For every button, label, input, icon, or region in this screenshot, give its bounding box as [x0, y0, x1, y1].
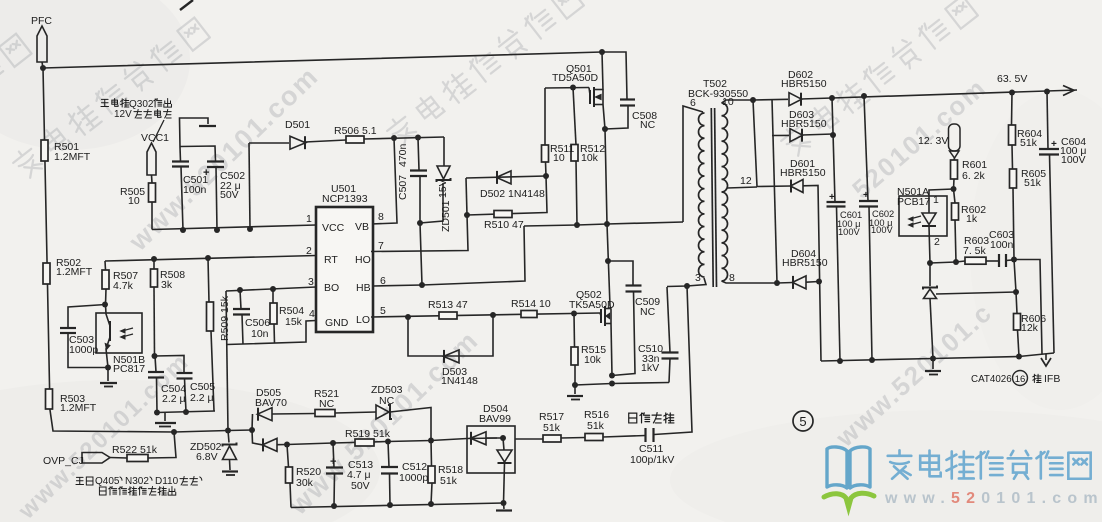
- svg-text:D501: D501: [285, 119, 310, 131]
- svg-text:2.2 μ: 2.2 μ: [190, 392, 214, 404]
- svg-text:51k: 51k: [587, 420, 605, 432]
- svg-text:+: +: [829, 192, 835, 203]
- svg-text:NC: NC: [379, 395, 395, 407]
- svg-text:1N4148: 1N4148: [441, 375, 478, 387]
- svg-text:IFB: IFB: [1044, 373, 1060, 385]
- svg-text:N302: N302: [125, 476, 149, 487]
- svg-text:2: 2: [934, 236, 940, 248]
- svg-text:R509 15k: R509 15k: [219, 295, 231, 341]
- svg-text:GND: GND: [325, 317, 349, 329]
- svg-text:6. 2k: 6. 2k: [962, 170, 986, 182]
- svg-text:10k: 10k: [581, 152, 599, 164]
- svg-text:HBR5150: HBR5150: [781, 78, 827, 90]
- svg-text:470n: 470n: [397, 143, 409, 167]
- svg-text:12: 12: [740, 175, 752, 187]
- svg-text:TK5A50D: TK5A50D: [569, 299, 615, 311]
- svg-text:7. 5k: 7. 5k: [963, 245, 987, 257]
- svg-text:16: 16: [1015, 374, 1026, 385]
- svg-text:VCC: VCC: [322, 222, 345, 234]
- svg-text:100n: 100n: [990, 239, 1014, 251]
- svg-text:OVP_CJ: OVP_CJ: [43, 455, 84, 467]
- svg-text:50V: 50V: [220, 189, 239, 201]
- svg-text:30k: 30k: [296, 477, 314, 489]
- svg-text:HBR5150: HBR5150: [782, 257, 828, 269]
- svg-text:10k: 10k: [584, 354, 602, 366]
- svg-text:15k: 15k: [285, 316, 303, 328]
- svg-text:R513 47: R513 47: [428, 299, 468, 311]
- svg-text:VCC1: VCC1: [141, 132, 169, 144]
- svg-text:VB: VB: [355, 221, 369, 233]
- svg-text:R506 5.1: R506 5.1: [334, 125, 377, 137]
- svg-text:3: 3: [308, 276, 314, 288]
- svg-text:PFC: PFC: [31, 15, 52, 27]
- svg-text:D110: D110: [155, 476, 179, 487]
- svg-text:5: 5: [380, 305, 386, 317]
- svg-text:100n: 100n: [183, 184, 207, 196]
- svg-text:NCP1393: NCP1393: [322, 193, 368, 205]
- svg-text:1k: 1k: [966, 213, 978, 225]
- svg-text:BAV70: BAV70: [255, 397, 287, 409]
- svg-text:12k: 12k: [1021, 322, 1039, 334]
- svg-text:10n: 10n: [251, 328, 269, 340]
- svg-text:R514 10: R514 10: [511, 298, 551, 310]
- svg-text:50V: 50V: [351, 480, 370, 492]
- svg-text:100V: 100V: [871, 225, 894, 235]
- svg-text:ZD501: ZD501: [440, 200, 452, 232]
- svg-text:2.2 μ: 2.2 μ: [162, 393, 186, 405]
- svg-text:NC: NC: [319, 398, 335, 410]
- svg-text:3: 3: [695, 272, 701, 284]
- svg-text:R519 51k: R519 51k: [345, 428, 391, 440]
- svg-text:15V: 15V: [437, 179, 449, 198]
- svg-text:10: 10: [128, 195, 140, 207]
- svg-text:RT: RT: [324, 254, 338, 266]
- svg-text:www.520101.com: www.520101.com: [884, 490, 1102, 507]
- svg-text:+: +: [863, 190, 869, 201]
- svg-text:63. 5V: 63. 5V: [997, 73, 1027, 85]
- svg-text:LO: LO: [356, 314, 370, 326]
- svg-text:8: 8: [378, 211, 384, 223]
- svg-text:12. 3V: 12. 3V: [918, 135, 948, 147]
- svg-text:BO: BO: [324, 282, 339, 294]
- svg-text:HBR5150: HBR5150: [781, 118, 827, 130]
- svg-text:1000p: 1000p: [69, 344, 98, 356]
- svg-text:2: 2: [306, 245, 312, 257]
- svg-text:BCK-930550: BCK-930550: [688, 88, 748, 100]
- svg-text:NC: NC: [640, 119, 656, 131]
- svg-text:TD5A50D: TD5A50D: [552, 72, 599, 84]
- svg-text:R522 51k: R522 51k: [112, 444, 158, 456]
- svg-text:100p/1kV: 100p/1kV: [630, 454, 674, 466]
- svg-text:8: 8: [729, 272, 735, 284]
- svg-text:6: 6: [690, 97, 696, 109]
- svg-text:7: 7: [378, 240, 384, 252]
- svg-text:3k: 3k: [161, 279, 173, 291]
- svg-text:Q405: Q405: [95, 476, 120, 487]
- svg-text:HO: HO: [355, 254, 371, 266]
- svg-text:+: +: [330, 456, 336, 468]
- svg-text:1000p: 1000p: [399, 472, 428, 484]
- svg-text:51k: 51k: [440, 475, 458, 487]
- svg-text:51k: 51k: [1020, 137, 1038, 149]
- svg-text:1.2MFT: 1.2MFT: [60, 402, 97, 414]
- svg-text:CAT4026: CAT4026: [971, 374, 1012, 385]
- svg-text:6: 6: [380, 275, 386, 287]
- svg-text:1: 1: [306, 213, 312, 225]
- svg-text:4.7k: 4.7k: [113, 280, 134, 292]
- svg-text:+: +: [1051, 139, 1057, 150]
- svg-text:PCB17: PCB17: [897, 196, 930, 208]
- svg-text:1.2MFT: 1.2MFT: [54, 151, 91, 163]
- svg-text:HBR5150: HBR5150: [780, 167, 826, 179]
- svg-text:D502 1N4148: D502 1N4148: [480, 188, 545, 200]
- svg-text:PC817: PC817: [113, 363, 145, 375]
- svg-text:4: 4: [309, 308, 315, 320]
- svg-text:C507: C507: [397, 175, 409, 200]
- svg-text:BAV99: BAV99: [479, 413, 511, 425]
- svg-text:10: 10: [553, 152, 565, 164]
- svg-text:51k: 51k: [1024, 177, 1042, 189]
- svg-text:1.2MFT: 1.2MFT: [56, 266, 93, 278]
- svg-text:6.8V: 6.8V: [196, 451, 218, 463]
- svg-text:10: 10: [722, 96, 734, 108]
- svg-text:HB: HB: [356, 282, 371, 294]
- svg-text:1kV: 1kV: [641, 362, 659, 374]
- svg-text:5: 5: [799, 414, 806, 429]
- svg-text:Q302: Q302: [129, 99, 154, 110]
- svg-text:R510 47: R510 47: [484, 219, 524, 231]
- svg-text:NC: NC: [640, 306, 656, 318]
- svg-text:1: 1: [933, 194, 939, 206]
- svg-text:100V: 100V: [1061, 154, 1086, 166]
- svg-text:12V: 12V: [114, 109, 132, 120]
- svg-text:100V: 100V: [838, 227, 861, 237]
- svg-text:51k: 51k: [543, 422, 561, 434]
